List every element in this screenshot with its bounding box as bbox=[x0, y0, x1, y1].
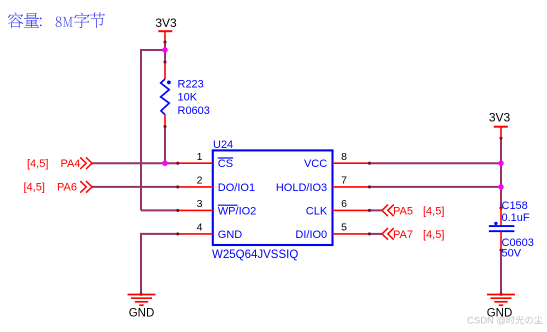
wire into pin 3 WP/IO2 bbox=[141, 209, 178, 211]
wire PA4 to pin 1 CS bbox=[92, 162, 178, 164]
port PA4 bbox=[27, 157, 92, 170]
svg-text:3: 3 bbox=[197, 198, 203, 210]
port PA6 bbox=[24, 181, 93, 194]
junction VCC rail bbox=[498, 160, 504, 166]
pin 2 DO/IO1 bbox=[178, 175, 255, 194]
wire capacitor bottom to ground bbox=[500, 250, 502, 294]
wire resistor bottom to junction B bbox=[164, 127, 166, 164]
power 3V3 (top) bbox=[155, 16, 177, 42]
svg-text:CS: CS bbox=[218, 158, 233, 170]
svg-text:2: 2 bbox=[197, 175, 203, 187]
IC U24 body bbox=[213, 150, 333, 245]
svg-text:PA5: PA5 bbox=[393, 206, 413, 218]
resistor R223 pin bottom bbox=[164, 115, 166, 127]
svg-text:W25Q64JVSSIQ: W25Q64JVSSIQ bbox=[212, 249, 298, 261]
wire pin 5 DI/IO0 to PA7 bbox=[369, 233, 382, 235]
svg-text:7: 7 bbox=[341, 175, 347, 187]
svg-text:DO/IO1: DO/IO1 bbox=[218, 182, 255, 194]
svg-text:VCC: VCC bbox=[304, 158, 327, 170]
wire pin 6 CLK to PA5 bbox=[369, 209, 382, 211]
ground symbol (left) bbox=[128, 295, 156, 320]
wire pin 7 HOLD/IO3 to 3V3 rail bbox=[369, 186, 501, 188]
svg-text:CSDN @: CSDN @ bbox=[467, 316, 506, 327]
wire pin 8 VCC to 3V3 rail bbox=[369, 162, 501, 164]
port PA7 bbox=[382, 228, 444, 241]
junction node A bbox=[162, 47, 168, 53]
svg-text:3V3: 3V3 bbox=[489, 110, 511, 124]
svg-text:10K: 10K bbox=[178, 92, 198, 104]
junction node B bbox=[162, 160, 168, 166]
svg-text:0.1uF: 0.1uF bbox=[502, 212, 530, 224]
pin 4 GND bbox=[178, 222, 243, 241]
pin 6 CLK bbox=[306, 198, 370, 217]
svg-text:6: 6 bbox=[341, 198, 347, 210]
svg-text:1: 1 bbox=[197, 151, 203, 163]
resistor R223 pin top bbox=[164, 62, 166, 79]
watermark CSDN @时光の尘 bbox=[467, 316, 543, 327]
capacitor C158 pin top bbox=[500, 208, 502, 226]
svg-text:C158: C158 bbox=[502, 200, 528, 212]
svg-text:8: 8 bbox=[341, 151, 347, 163]
wire junction A branch left and down bbox=[141, 50, 165, 210]
svg-text:PA7: PA7 bbox=[393, 229, 413, 241]
svg-text:[4,5]: [4,5] bbox=[24, 182, 45, 194]
pin 8 VCC bbox=[304, 151, 369, 170]
pin hotspot dots at wire/pin transitions bbox=[139, 40, 502, 295]
svg-text:5: 5 bbox=[341, 222, 347, 234]
title text 容量：8M字节 bbox=[8, 12, 105, 28]
svg-text:GND: GND bbox=[218, 229, 243, 241]
svg-text:PA6: PA6 bbox=[57, 182, 77, 194]
svg-text:[4,5]: [4,5] bbox=[423, 229, 444, 241]
svg-text:[4,5]: [4,5] bbox=[423, 206, 444, 218]
pin 1 CS bbox=[178, 151, 233, 170]
resistor R223 body bbox=[161, 79, 171, 115]
svg-text:[4,5]: [4,5] bbox=[27, 158, 48, 170]
svg-text:R223: R223 bbox=[178, 79, 204, 91]
pin 7 HOLD/IO3 bbox=[276, 175, 370, 194]
svg-text:U24: U24 bbox=[213, 139, 233, 151]
svg-text:GND: GND bbox=[129, 308, 155, 320]
wire 3V3 right rail vertical bbox=[500, 138, 502, 208]
svg-text:WP/IO2: WP/IO2 bbox=[218, 205, 257, 217]
svg-text:DI/IO0: DI/IO0 bbox=[295, 229, 327, 241]
wire PA6 to pin 2 DO/IO1 bbox=[92, 186, 178, 188]
wire pin 4 GND down to ground bbox=[141, 234, 178, 294]
power 3V3 (right) bbox=[489, 110, 511, 138]
port PA5 bbox=[382, 205, 444, 218]
svg-text:3V3: 3V3 bbox=[155, 16, 177, 30]
svg-text:CLK: CLK bbox=[306, 205, 328, 217]
capacitor C158 pin bottom bbox=[500, 232, 502, 250]
capacitor C158 body bbox=[489, 222, 514, 232]
wire 3V3 stem to junction A bbox=[164, 42, 166, 50]
ground symbol (right) bbox=[487, 295, 515, 320]
pin 5 DI/IO0 bbox=[295, 222, 369, 241]
junction HOLD rail bbox=[498, 184, 504, 190]
svg-text:PA4: PA4 bbox=[61, 158, 81, 170]
wire resistor top bbox=[164, 50, 166, 62]
svg-text:50V: 50V bbox=[502, 248, 522, 260]
pin 3 WP/IO2 bbox=[178, 198, 257, 217]
svg-text:R0603: R0603 bbox=[178, 105, 210, 117]
svg-text:HOLD/IO3: HOLD/IO3 bbox=[276, 182, 327, 194]
svg-text:4: 4 bbox=[197, 222, 203, 234]
